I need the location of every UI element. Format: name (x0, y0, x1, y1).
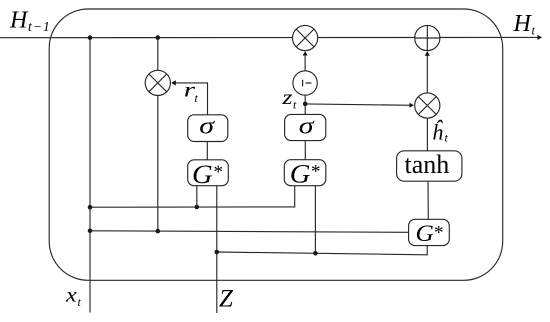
wire sigma1 to G*1 (206, 142, 208, 160)
wire Z vertical (216, 186, 218, 313)
adder A1 on top line (415, 25, 440, 50)
box sigma1 (188, 115, 228, 142)
svg-text:G: G (290, 159, 311, 188)
junction dot x_t on line 1 (88, 205, 93, 210)
box G*3 (409, 219, 450, 245)
svg-text:G: G (192, 160, 213, 189)
wire reset branch vertical (157, 38, 159, 232)
svg-text:*: * (311, 161, 321, 182)
svg-text:t: t (293, 98, 297, 112)
svg-text:H: H (9, 8, 29, 34)
wire G*2 right output (314, 186, 316, 254)
wire z: sigma2 top to one-minus circle (304, 95, 306, 114)
svg-text:G: G (416, 221, 435, 247)
box sigma2 (285, 114, 326, 140)
cell boundary rounded rectangle (49, 9, 503, 280)
junction dot z_t node (303, 102, 308, 107)
junction dot top line at reset branch (156, 35, 161, 40)
wire horizontal line 1 to G*2 bottom (90, 186, 295, 208)
junction dot Z on line 3 (215, 250, 220, 255)
multiplier M3 right (415, 93, 440, 118)
svg-text:t−1: t−1 (28, 19, 51, 34)
svg-text:tanh: tanh (405, 150, 450, 179)
svg-text:t: t (78, 295, 82, 309)
junction dot reset line end on line 2 (156, 229, 161, 234)
svg-text:H: H (513, 11, 533, 37)
wire sigma2 to G*2 (304, 141, 306, 160)
junction dot x_t on line 2 (88, 229, 93, 234)
svg-text:x: x (65, 283, 77, 306)
box tanh (397, 151, 462, 181)
wire horizontal line 2 to G*3 left (90, 231, 409, 233)
wire horizontal line 3 to G*3 bottom (217, 246, 427, 255)
wire right multiplier to adder (426, 52, 428, 93)
svg-text:σ: σ (199, 112, 216, 139)
box G*2 (284, 160, 326, 186)
wire r_t: sigma1 top to left multiplier (172, 83, 208, 115)
svg-text:Z: Z (219, 286, 234, 313)
svg-text:t: t (445, 131, 449, 145)
junction dot G*1 left output on line 1 (195, 205, 200, 210)
multiplier M2 left (reset) (145, 70, 170, 95)
svg-text:*: * (434, 223, 444, 244)
wire H_{t-1} to H_t top line (0, 36, 542, 38)
wire one-minus to top multiplier (304, 52, 306, 71)
wire right multiplier to tanh (426, 118, 428, 151)
svg-text:*: * (214, 162, 224, 183)
wire G*1 left output (196, 186, 198, 207)
multiplier M1 on top line (293, 25, 318, 50)
svg-text:σ: σ (299, 112, 316, 139)
one-minus circle (293, 71, 317, 95)
svg-text:t: t (195, 91, 199, 105)
wire x_t vertical (89, 38, 91, 313)
box G*1 (188, 160, 229, 186)
junction dot top line at x_t (88, 35, 93, 40)
svg-text:t: t (532, 23, 536, 37)
svg-text:z: z (281, 86, 292, 109)
junction dot G*2 right output on line 3 (313, 251, 318, 256)
svg-text:ĥ: ĥ (432, 120, 444, 145)
wire z_t branch to right multiplier (305, 104, 413, 105)
wire tanh to G*3 (427, 181, 429, 219)
